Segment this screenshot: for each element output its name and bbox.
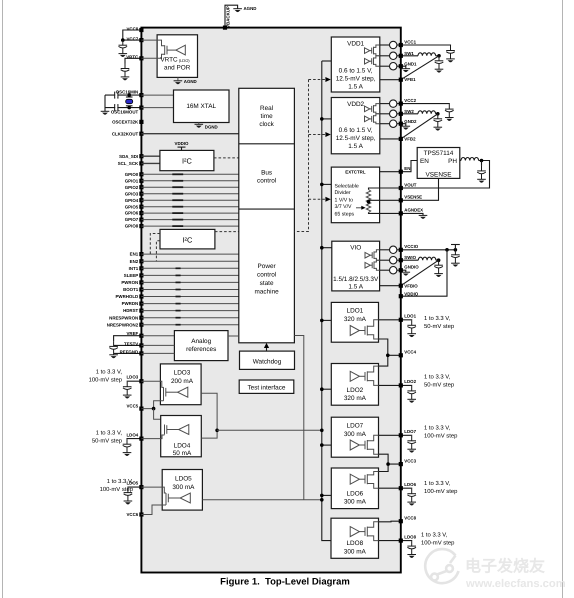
wire LDO2 output cap stub [401,384,412,387]
svg-text:GPIO5: GPIO5 [125,204,139,209]
block LDO8 [331,518,379,558]
capacitor C-VCC7 [119,40,128,57]
svg-text:REFGND: REFGND [120,350,139,355]
wire SW2 external [401,113,418,115]
block analog references [174,331,228,361]
power FET VIO row [365,260,380,270]
svg-text:GND1: GND1 [404,62,417,67]
wire LDO1 output [367,320,378,326]
pin SLEEP [139,273,143,277]
inductor LIO [418,257,436,260]
pin VCC8 [399,519,403,523]
capacitor C-LDO8 [407,541,416,558]
pin BOOT1 [139,287,143,291]
svg-text:and POR: and POR [164,64,191,71]
wire PWRON [141,281,238,283]
capacitor C-TPS out [477,166,486,183]
svg-text:GNDIO: GNDIO [404,264,419,269]
block LDO3 [160,364,201,405]
wire GND2 [401,124,406,127]
wire LDO8 supply lead [367,522,378,528]
svg-text:PWRHOLD: PWRHOLD [116,294,139,299]
svg-text:1.5 A: 1.5 A [348,143,363,150]
svg-text:GPIO0: GPIO0 [125,172,139,177]
block I2C (primary) [160,150,214,170]
pass element LDO5 pass FET [166,493,190,503]
wire LDO5 supply from VCC6 [141,502,166,514]
wire GPIO1 [141,180,238,182]
svg-text:LDO3: LDO3 [126,375,138,380]
wire LDO5 output [141,487,166,493]
svg-text:1 to 3.3 V,: 1 to 3.3 V, [424,480,451,487]
pin GPIO0 [139,172,143,176]
pin VCCIO [399,248,403,252]
junction VCC7/VCC8 [121,38,125,42]
svg-text:1 to 3.3 V,: 1 to 3.3 V, [96,430,123,437]
wire VSENSE external [401,178,439,200]
pin VSENSE [399,198,403,202]
block LDO4 [161,416,202,457]
svg-text:Divider: Divider [335,190,351,196]
wire LDO5 bias to rail [202,499,321,501]
power FET VDD1 row [365,45,380,56]
pin SW1 [399,54,403,58]
capacitor C-VCC1 [446,46,455,63]
block LDO6 [331,468,378,509]
svg-text:LDO8: LDO8 [346,540,363,547]
wire LIO node [436,259,439,261]
svg-text:SLEEP: SLEEP [124,273,138,278]
svg-text:100-mV step: 100-mV step [424,488,458,495]
svg-text:LDO1: LDO1 [404,314,416,319]
wire VFB2 [380,138,401,140]
svg-text:1 to 3.3 V,: 1 to 3.3 V, [424,424,451,431]
wire LDO4 bias [201,430,217,438]
pin VCC6 [139,512,143,516]
svg-text:SDA_SDI: SDA_SDI [119,154,138,159]
wire LDO3 external [127,380,141,383]
wire OSC16MOUT external [105,107,141,109]
svg-text:VCC4: VCC4 [404,350,416,355]
pin VCC4 [399,353,403,357]
wire VFBIO feedback diagonal [401,260,439,286]
pin PWRHOLD [139,294,143,298]
wire REFGND external [114,352,142,354]
wire crystal left leg [104,95,106,111]
svg-text:HDRST: HDRST [123,308,138,313]
wire VFB2 feedback diagonal [401,114,438,139]
pin GND1 [399,64,403,68]
svg-text:LDO8: LDO8 [404,534,416,539]
wire TESTV internal [141,344,174,346]
inductor L3 [461,158,479,161]
wire TESTV external [114,344,142,346]
wire VRTC output [141,54,164,58]
junction bias line [320,429,324,433]
capacitor C-VREF [109,341,118,358]
dashed enable VDD2 [309,134,327,136]
pin VCC2 [399,102,403,106]
pin OSC16MOUT [139,106,143,110]
wire CLK32KOUT to RTC [141,133,238,135]
svg-text:VBACKUP: VBACKUP [226,6,231,28]
svg-text:GND2: GND2 [404,119,417,124]
pass element VRTC FET [165,45,186,55]
pin EN1 [139,252,143,256]
block LDO7 [331,417,378,457]
svg-text:VDDIO: VDDIO [175,141,189,146]
pin GPIO1 [139,179,143,183]
svg-text:SW2: SW2 [404,109,414,114]
arrow watchdog to power control [266,346,268,351]
pin LDO1 [399,318,403,322]
pin NRESPWRON [139,316,143,320]
svg-text:VFBIO: VFBIO [404,283,418,288]
wire GPIO8 [141,225,238,227]
IC outer box [141,28,400,573]
svg-text:machine: machine [255,288,280,295]
svg-text:LDO7: LDO7 [347,423,364,430]
wire VOUT [369,188,401,190]
capacitor C-LDO3 [123,382,132,399]
pin circle VDD2 bot [380,123,390,125]
svg-text:GPIO6: GPIO6 [125,211,139,216]
rail stub LDO2 [322,388,332,390]
svg-text:100-mV step: 100-mV step [89,376,123,383]
svg-text:电子发烧友: 电子发烧友 [465,558,545,576]
svg-text:Figure 1. Top-Level Diagram: Figure 1. Top-Level Diagram [220,577,350,588]
supply flag VDDIO above I2C [178,147,186,150]
wire SLEEP [141,274,238,276]
svg-text:LDO3: LDO3 [174,369,191,376]
ground GND1 [402,69,411,72]
junction LDO3/LDO4 bias [215,429,219,433]
capacitor C-OSC16MOUT (series) [115,104,118,111]
rail stub VDD2 [322,118,332,120]
page left border [2,0,4,598]
wire VCC8 branch [123,30,142,40]
block VIO [332,241,380,291]
svg-text:1 to 3.3 V,: 1 to 3.3 V, [424,315,451,322]
svg-text:320 mA: 320 mA [344,316,367,323]
wire LDO5 external [128,486,141,489]
pin VFBIO [399,284,403,288]
wire LDO7 output cap stub [401,434,412,437]
wire LDO8 output to pin [379,540,401,542]
wire VBACKUP to AGND [225,5,238,27]
svg-text:NRESPWRON: NRESPWRON [109,315,138,320]
svg-text:Power: Power [258,263,277,270]
wire VCC4 net [379,339,401,366]
pin GND2 [399,122,403,126]
pin VCC5 [139,407,143,411]
svg-text:LDO6: LDO6 [347,490,364,497]
svg-text:OSC16MIN: OSC16MIN [116,90,138,95]
svg-text:NRESPWRON2: NRESPWRON2 [107,322,139,327]
svg-text:300 mA: 300 mA [344,431,367,438]
svg-text:Bus: Bus [261,170,272,177]
pin circle VIO bot [380,269,390,271]
wire GND1 [401,66,406,69]
capacitor C-VRTC [121,64,130,81]
pin OSCEXT32K [139,120,143,124]
arrow divider tap [356,207,363,209]
svg-text:16M XTAL: 16M XTAL [186,103,216,110]
pin circle VDD1 bot [380,65,390,67]
pin GPIO5 [139,205,143,209]
block LDO1 [331,302,378,342]
junction LDO5 bias [320,498,324,502]
capacitor C-LDO2 [407,386,416,403]
pass element LDO6 pass FET [350,474,367,484]
svg-text:TESTV: TESTV [124,342,138,347]
svg-text:VCC6: VCC6 [126,512,138,517]
power FET VDD2 row [365,114,380,124]
svg-text:VOUT: VOUT [404,183,417,188]
wire REFGND internal [141,352,174,354]
wire VCC7 branch [123,39,142,41]
capacitor C-VCC2 [445,104,454,121]
svg-text:1 to 3.3 V,: 1 to 3.3 V, [96,368,123,375]
pin circle VDD1 top [380,44,390,46]
pin SWIO [399,258,403,262]
wire GPIO4 [141,199,238,201]
page right border [562,0,564,598]
svg-text:50-mV step: 50-mV step [424,381,455,388]
svg-text:GPIO4: GPIO4 [125,198,139,203]
svg-text:VFB1: VFB1 [404,77,416,82]
wire LDO6 supply lead [367,472,378,475]
wire SDA_SDI [141,155,160,157]
svg-text:GPIO2: GPIO2 [125,185,139,190]
capacitor C-LDO6 [407,489,416,506]
wire power control to LDO bias [294,336,303,500]
svg-text:TPS57114: TPS57114 [424,150,454,157]
pin GPIO3 [139,192,143,196]
svg-text:GPIO3: GPIO3 [125,191,139,196]
wire VCC5 to LDO4 [154,409,165,425]
svg-text:LDO7: LDO7 [404,429,416,434]
wire VCC7 into VRTC [141,40,164,46]
pin PWRDN [139,302,143,306]
dashed wire I2C2 to EN2 [156,241,160,261]
wire LDO6 output to pin [379,487,401,489]
svg-text:65 steps: 65 steps [335,212,355,218]
pin circle VDD1 mid [380,55,390,57]
wire LDO8 output [367,536,378,541]
pin LDO5 [139,485,143,489]
pin GPIO4 [139,198,143,202]
svg-text:100-mV step: 100-mV step [421,539,455,546]
wire NRESPWRON2 [141,324,238,326]
svg-text:200 mA: 200 mA [171,378,194,385]
svg-text:VCC8: VCC8 [126,26,138,31]
wire VCC1 external [401,44,451,47]
wire LDO4 output [141,435,164,439]
wire NRESPWRON [141,317,238,319]
svg-text:www.elecfans.com: www.elecfans.com [465,578,566,590]
svg-text:VCC8: VCC8 [404,515,416,520]
pin VCC8 [139,28,143,32]
pin VCC7 [139,38,143,42]
wire LDO3 supply from VCC5 [141,397,163,409]
pin VFB2 [399,137,403,141]
wire LDO2 output [367,381,378,386]
pin NRESPWRON2 [139,323,143,327]
svg-text:AGND: AGND [184,79,197,84]
wire HDRST [141,310,238,312]
wire LDO6 output [367,484,378,489]
pin HDRST [139,309,143,313]
svg-text:VCC2: VCC2 [404,98,416,103]
crystal Y1 16MHz [126,95,133,108]
pin SDA_SDI [139,154,143,158]
svg-text:PWRDN: PWRDN [122,301,139,306]
svg-text:INT1: INT1 [129,266,139,271]
pin circle VIO mid [380,259,390,261]
svg-text:state: state [260,280,274,287]
wire L3 node [401,161,490,189]
ground AGND VRTC [174,81,183,84]
wire VCC2 external [401,103,450,106]
svg-text:LDO2: LDO2 [404,379,416,384]
wire GNDIO [401,270,406,272]
svg-text:control: control [257,178,276,185]
capacitor C-SW2 [434,114,443,131]
block TPS57114 [417,148,460,179]
svg-text:VSENSE: VSENSE [404,195,422,200]
svg-text:LDO4: LDO4 [174,443,191,450]
pin VCC3 [399,462,403,466]
wire LDO3 output [141,381,163,387]
junction VCC5 [152,407,156,411]
svg-text:EXTCTRL: EXTCTRL [345,170,366,175]
svg-text:1 to 3.3 V,: 1 to 3.3 V, [424,373,451,380]
capacitor C-LDO7 [407,436,416,453]
watermark logo elecfans [425,549,458,583]
pin LDO2 [399,383,403,387]
wire OSC16MIN external [105,94,141,96]
power FET VDD2 row [365,104,380,114]
svg-text:VFB2: VFB2 [404,136,416,141]
svg-text:LDO2: LDO2 [347,387,364,394]
wire LDO2 output to pin [379,384,401,386]
ground crystal GND [101,111,110,114]
pass element LDO8 pass FET [350,527,367,537]
block VRTC (LDO) and POR [157,35,197,78]
wire AGNDEX ground [401,213,423,215]
svg-text:0.6 to 1.5 V,: 0.6 to 1.5 V, [339,68,373,75]
capacitor C-LDO1 [407,320,416,337]
wire GPIO6 [141,212,238,214]
pin circle VDD2 mid [380,113,390,115]
block RTC / bus control / power control column [239,88,295,342]
pass element LDO4 pass FET [165,425,189,435]
pin EN [399,170,403,174]
inductor L1 [418,53,436,56]
rail stub LDO7 [322,444,332,446]
pin CLK32KOUT [139,132,143,136]
pin OSC16MIN [139,93,143,97]
power FET VIO row [365,250,380,260]
svg-text:Real: Real [260,105,273,112]
inductor L2 [418,111,436,114]
svg-text:0.6 to 1.5 V,: 0.6 to 1.5 V, [339,127,373,134]
wire EN out [380,171,401,173]
wire VFB1 feedback diagonal [401,56,439,80]
pass element LDO7 pass FET [350,440,367,450]
wire INT1 [141,267,238,269]
pin GPIO7 [139,218,143,222]
wire VSENSE tap [369,200,401,202]
capacitor C-LDO4 [123,439,132,456]
wire LDO7 supply lead [367,449,378,454]
capacitor C-OSC16MIN (series) [115,92,118,99]
wire LDO1 output to pin [379,319,401,321]
pin circle VIO top [380,249,390,251]
svg-text:LDO1: LDO1 [347,308,364,315]
svg-text:EN: EN [420,158,429,165]
svg-text:VIO: VIO [350,245,361,252]
svg-text:VCC7: VCC7 [126,37,138,42]
svg-text:3/7 V/V: 3/7 V/V [335,204,353,210]
svg-text:1 to 3.3 V,: 1 to 3.3 V, [421,531,448,538]
svg-text:Test interface: Test interface [247,384,285,391]
pin GNDIO [399,268,403,272]
rail stub LDO1 [322,319,332,321]
wire VDDIO external [401,250,447,296]
block I2C (secondary) [160,229,215,249]
svg-text:LDO4: LDO4 [126,433,138,438]
svg-text:1.5 A: 1.5 A [348,83,363,90]
svg-text:50 mA: 50 mA [173,450,192,457]
wire VRTC branch [125,58,141,63]
wire bias line to rail [217,429,322,431]
svg-text:320 mA: 320 mA [344,395,367,402]
wire LDO1 output cap stub [401,319,412,322]
svg-text:EN1: EN1 [130,252,139,257]
svg-text:GPIO7: GPIO7 [125,217,139,222]
pass element LDO3 pass FET [164,387,188,397]
svg-text:AGND: AGND [244,6,257,11]
wire PWRHOLD [141,296,238,298]
block VDD1 [331,37,380,92]
svg-text:VSENSE: VSENSE [426,171,452,178]
dashed wire I2C to bus control [214,157,239,159]
pin PWRON [139,280,143,284]
wire EN1 [141,253,238,255]
wire LDO8 output cap stub [401,540,412,543]
svg-text:50-mV step: 50-mV step [424,323,455,330]
power FET VDD1 row [365,56,380,66]
pin VCC1 [399,43,403,47]
wire LDO2 supply lead [367,366,378,372]
wire PWRDN [141,303,238,305]
svg-text:VRTC (LDO): VRTC (LDO) [160,56,190,63]
block watchdog [240,351,295,369]
supply rail vertical [322,61,331,541]
pin GPIO8 [139,224,143,228]
dashed wire I2C2 to power control [215,231,239,233]
block VDD2 [331,98,380,154]
svg-text:I²C: I²C [182,157,193,166]
wire SCL_SCK [141,162,160,164]
pin GPIO2 [139,185,143,189]
pin LDO4 [139,437,143,441]
wire VREF external [114,336,142,342]
svg-text:clock: clock [259,121,274,128]
rail stub VDD1 [322,60,332,62]
